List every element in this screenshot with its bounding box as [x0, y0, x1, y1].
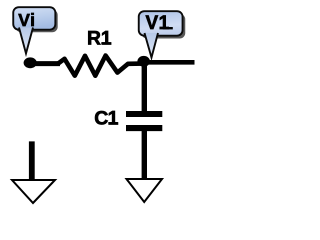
- ground (under capacitor C1): [127, 179, 163, 202]
- callout V1 tail (pointer to junction node): [145, 33, 159, 58]
- node A junction dot (V1 node): [137, 56, 150, 67]
- wire: junction down to capacitor C1 top plate: [142, 61, 147, 112]
- callout V1 box: [139, 11, 183, 36]
- resistor R1 (zigzag body): [58, 56, 143, 76]
- svg-text:Vi: Vi: [18, 10, 35, 30]
- ground (left, input reference): [12, 180, 55, 203]
- wire: node Vi to resistor R1 left lead: [30, 61, 60, 66]
- capacitor C1 bottom plate: [126, 125, 162, 131]
- white background: [0, 0, 202, 226]
- callout V1 shadow: [141, 14, 185, 39]
- wire: capacitor C1 bottom plate to ground: [142, 130, 147, 181]
- svg-text:R1: R1: [87, 28, 112, 49]
- wire: junction to right edge (output): [143, 60, 195, 65]
- callout Vi shadow: [16, 10, 58, 33]
- callout Vi tail (pointer to input node): [19, 28, 33, 54]
- svg-text:V1: V1: [146, 13, 170, 34]
- wire: left ground stem: [29, 141, 35, 181]
- callout Vi box: [13, 7, 55, 30]
- svg-text:C1: C1: [94, 107, 118, 129]
- node dot (Vi input node): [24, 57, 37, 68]
- capacitor C1 top plate: [126, 111, 162, 117]
